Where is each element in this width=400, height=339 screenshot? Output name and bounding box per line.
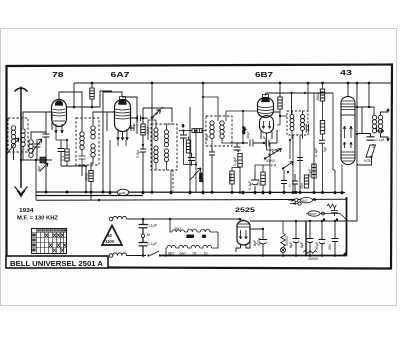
cap C5 <box>130 125 134 131</box>
resistor R1 <box>90 88 94 99</box>
det coil box T5 <box>287 111 308 135</box>
T1 wires down <box>82 112 107 176</box>
mains choke L3 <box>113 216 127 219</box>
coupling cap C12b <box>319 140 325 143</box>
wire node g1 <box>31 132 46 139</box>
box cap C18 <box>307 221 314 256</box>
plate feed wire 43 <box>348 83 357 221</box>
filament humps row2 <box>167 245 215 248</box>
diode load wires <box>267 116 281 150</box>
ballast resistor 30ohm <box>172 230 188 232</box>
lamp wire <box>282 247 284 256</box>
tube V1 pins <box>55 124 64 133</box>
cathode 78 <box>56 133 67 140</box>
AVC resistor R7 <box>230 171 234 184</box>
wire V2 cathode down <box>110 140 126 193</box>
svg-text:0,5: 0,5 <box>371 143 375 148</box>
svg-text:M.F. = 130 KHZ: M.F. = 130 KHZ <box>17 216 58 222</box>
svg-text:0,1µf: 0,1µf <box>376 138 385 142</box>
padder resistor Rb <box>186 140 190 153</box>
svg-text:43: 43 <box>340 68 352 77</box>
svg-text:50µf: 50µf <box>205 133 209 141</box>
valve table <box>32 229 67 254</box>
gang link dashed <box>172 170 174 191</box>
resistor R12 <box>304 175 308 188</box>
filament 2525 hump <box>188 229 201 232</box>
svg-text:3: 3 <box>182 124 184 128</box>
svg-text:6A7: 6A7 <box>111 70 130 79</box>
svg-text:10: 10 <box>204 252 208 256</box>
R7 wires <box>232 168 240 193</box>
capacitor C1 <box>43 112 50 192</box>
ground (antenna return) <box>15 187 28 197</box>
osc coil box T2 <box>151 124 177 170</box>
cap C11b <box>292 174 298 192</box>
R9 top wire <box>279 83 281 97</box>
rectifier top hatch <box>238 224 250 227</box>
field terminal <box>322 212 325 215</box>
filament 43 hump <box>201 229 219 232</box>
svg-text:1934: 1934 <box>19 208 34 214</box>
wire to detector <box>230 142 248 144</box>
R6 wires <box>237 143 240 192</box>
border frame <box>7 65 393 269</box>
tube V3 top cap <box>263 95 269 98</box>
bias resistor R8 <box>261 172 265 185</box>
wire V3 cap <box>266 93 292 114</box>
plate resistor R9 <box>278 97 282 109</box>
svg-text:2525: 2525 <box>235 207 256 214</box>
voltage triangle <box>102 226 122 246</box>
svg-text:2: 2 <box>289 184 291 188</box>
T4 wires <box>203 97 258 152</box>
svg-text:6B7: 6B7 <box>168 252 175 256</box>
B+ bus <box>74 82 391 84</box>
junction dots psu <box>262 220 298 257</box>
T2 wires <box>148 120 172 192</box>
value labels <box>37 93 385 261</box>
RF transformer T1 box <box>76 118 99 165</box>
coil T4b <box>220 121 224 139</box>
svg-text:400v: 400v <box>257 238 261 246</box>
wire mains top <box>127 218 197 220</box>
tube V2 grid hatch <box>115 109 130 119</box>
tube V1 78 envelope <box>52 100 67 127</box>
field coil wires <box>306 214 348 222</box>
title box <box>6 256 108 268</box>
wire V2 plate <box>122 97 137 118</box>
T5 wires <box>280 111 303 139</box>
coupling cap C9 <box>266 130 277 147</box>
IF transformer T4 box <box>206 116 232 146</box>
grid resistor R3 <box>89 171 93 182</box>
coil L1b <box>21 129 25 147</box>
filament wire <box>166 248 167 256</box>
bleeder resistor zigzag <box>281 221 285 247</box>
dial lamp symbol <box>280 247 285 252</box>
svg-text:40: 40 <box>107 233 112 238</box>
cap C12 <box>297 158 303 161</box>
svg-text:0,1: 0,1 <box>61 156 65 161</box>
svg-text:43: 43 <box>202 235 206 239</box>
tube V4 grid hatch <box>342 101 355 110</box>
V4 cathode wires <box>333 165 342 193</box>
tube V3 6B7 envelope upper <box>258 98 274 118</box>
rectifier top wire <box>242 219 244 221</box>
R13 wire top <box>322 83 324 89</box>
box cap C19 <box>319 221 326 256</box>
tube V1 grid hatch <box>53 109 66 116</box>
line filter cap C15 <box>139 238 148 256</box>
wire L1 bottom <box>14 147 37 161</box>
wire bottom rail left <box>21 160 52 200</box>
V4 cathode hatch <box>342 152 355 161</box>
coupling cap C8 <box>250 140 264 147</box>
mains terminal top <box>109 217 113 221</box>
cap C11 <box>281 178 287 193</box>
coil T5b <box>301 115 305 131</box>
tube V3 grid cap blob <box>261 97 269 102</box>
svg-text:25v: 25v <box>257 180 261 186</box>
resistor R13b <box>320 121 324 135</box>
rectifier cathode wire <box>236 221 306 252</box>
tube V1 base <box>53 120 65 122</box>
svg-text:0,1µF: 0,1µF <box>314 147 318 157</box>
svg-text:8µF: 8µF <box>300 241 304 248</box>
wire S3 <box>284 140 290 178</box>
svg-text:F.A: F.A <box>271 164 277 168</box>
coil T1b <box>91 126 95 157</box>
grid feed 43 <box>332 93 334 170</box>
midpoint terminal M <box>141 234 144 237</box>
coil L1a <box>11 126 15 148</box>
output transformer secondary <box>378 115 382 133</box>
tone capacitor C13 <box>357 134 375 141</box>
T4 caps below <box>209 146 215 193</box>
tube V1 grid cap blob <box>55 100 63 105</box>
filter box left edge <box>305 221 307 256</box>
coil T2a lower <box>154 146 158 163</box>
junction dots det <box>239 142 265 195</box>
filament row link <box>215 232 219 248</box>
svg-text:0,5µf: 0,5µf <box>136 149 140 158</box>
ground bus 2 <box>36 195 143 197</box>
6B7 cap bus wire <box>266 92 334 94</box>
svg-text:0,1µF: 0,1µF <box>148 242 158 246</box>
svg-text:2525: 2525 <box>187 235 195 239</box>
wire grid 78 <box>51 112 53 130</box>
svg-text:VOL: VOL <box>364 159 371 163</box>
R8 wires <box>255 165 270 193</box>
filter cap C17 <box>293 221 300 256</box>
osc grid resistor R4 <box>141 124 145 135</box>
bus dots <box>45 191 344 202</box>
R10 wires <box>322 101 324 193</box>
junction T2 <box>170 192 192 195</box>
corner fill <box>342 251 347 256</box>
cathode bypass wire <box>242 111 244 143</box>
wire V2 cap loop <box>103 92 122 192</box>
coil T2b <box>164 130 168 147</box>
wire V1 plate <box>67 106 93 108</box>
tube V4 neck <box>341 114 355 116</box>
wire cathode to rail <box>61 140 86 192</box>
hum trimmer <box>327 204 338 216</box>
svg-text:6B7: 6B7 <box>255 70 273 79</box>
mains choke L4 <box>113 253 127 256</box>
coil T2b lower <box>164 149 168 162</box>
line filter cap C14 <box>139 219 148 234</box>
osc padder network wire top <box>179 131 196 192</box>
junction dots V3 <box>283 139 291 194</box>
svg-text:0,1: 0,1 <box>133 123 138 127</box>
svg-text:GHB: GHB <box>119 191 126 195</box>
field coil oval <box>308 211 320 216</box>
junction dots mains <box>142 218 172 257</box>
ground bus <box>36 191 345 194</box>
wire V1 top cap <box>59 92 82 130</box>
svg-text:8µF: 8µF <box>289 241 293 248</box>
svg-text:0,1µF: 0,1µF <box>248 180 252 190</box>
mains terminal bottom <box>109 254 113 258</box>
svg-text:50M: 50M <box>146 127 150 134</box>
cathode resistor R2 <box>65 149 69 161</box>
antenna <box>15 87 28 189</box>
junction dot <box>279 82 293 118</box>
padder joins <box>184 137 197 167</box>
junction dots 6A7 <box>109 82 154 195</box>
padder resistor horizontal <box>192 129 202 133</box>
switch S1 osc <box>152 110 161 118</box>
padder cap Cb <box>188 153 195 165</box>
PU terminal <box>290 202 301 205</box>
wire padder <box>186 130 206 132</box>
svg-text:20000: 20000 <box>308 257 318 261</box>
T5 trim cap <box>306 124 308 133</box>
junction dots right <box>356 82 371 136</box>
svg-text:1MΩ: 1MΩ <box>85 173 89 181</box>
svg-text:12500: 12500 <box>199 172 203 182</box>
svg-text:2MΩ: 2MΩ <box>316 93 320 101</box>
svg-text:110V: 110V <box>105 239 115 244</box>
svg-text:6A7: 6A7 <box>180 252 187 256</box>
R11 wires <box>313 158 315 192</box>
electrolytic C10 <box>251 172 259 193</box>
V4 internal arrows <box>343 126 352 148</box>
divider zigzag <box>303 251 317 254</box>
antenna coil box L1 <box>8 118 28 152</box>
screen feed vertical <box>202 83 204 193</box>
RF coil L2 <box>29 140 33 158</box>
coil T5a <box>290 115 294 131</box>
osc anode wire <box>136 118 138 134</box>
svg-text:30Ω: 30Ω <box>174 227 181 231</box>
svg-text:25v: 25v <box>300 183 304 189</box>
svg-text:50µF: 50µF <box>308 168 312 177</box>
det output vertical <box>269 143 271 192</box>
svg-text:M: M <box>147 233 150 237</box>
svg-text:10µf: 10µf <box>246 131 250 139</box>
tube V3 envelope lower <box>260 116 274 133</box>
screen tap wire <box>368 83 370 107</box>
T1 trimmer cap <box>79 150 86 165</box>
pilot lamp oval <box>117 189 129 195</box>
filter box right edge <box>346 197 348 256</box>
tuning capacitor CV1 <box>32 139 42 160</box>
junction dot <box>202 82 205 195</box>
V4 plate wire <box>347 83 349 97</box>
wire R4 <box>142 118 144 145</box>
tone control rheostat VOL <box>357 145 376 165</box>
svg-text:50µF: 50µF <box>315 241 319 250</box>
mains switch <box>150 251 159 256</box>
wire switch to bus <box>160 255 347 257</box>
wire mains bottom <box>127 255 147 257</box>
svg-text:78: 78 <box>52 70 64 79</box>
tube V2 6A7 envelope <box>115 100 131 132</box>
dial lamp feed <box>170 219 172 232</box>
osc vertical feed <box>189 107 191 193</box>
wire mains to rectifier <box>196 218 240 220</box>
tube V2 pins <box>117 129 129 140</box>
trimmer arrow <box>190 168 201 180</box>
wire to 6A7 grid <box>106 112 108 131</box>
speaker field resistor oval <box>289 197 313 202</box>
svg-text:0,1µF: 0,1µF <box>148 224 158 228</box>
tube V3 grid hatch <box>258 107 273 114</box>
wire R3 down <box>90 182 92 201</box>
tube V3 diode arrows <box>262 121 270 129</box>
svg-text:0,1µF: 0,1µF <box>233 156 237 166</box>
wave trap arrow <box>40 163 49 172</box>
series resistor <box>36 157 52 163</box>
wire V3 plate <box>274 109 281 116</box>
padder cap C6 <box>140 145 146 193</box>
antenna coupling trimmer arrow <box>6 138 19 155</box>
junction dots det2 <box>254 192 272 195</box>
svg-text:BELL UNIVERSEL 2501 A: BELL UNIVERSEL 2501 A <box>10 259 103 268</box>
coil T4a <box>210 121 214 139</box>
diode load cap <box>234 143 241 152</box>
volume control diagonal <box>265 149 282 159</box>
resistor R11 <box>312 164 316 178</box>
main B+ dropper <box>151 83 153 193</box>
wire R1 <box>92 83 100 107</box>
junction dots AF <box>292 82 324 201</box>
AF coupling network verticals <box>293 83 314 192</box>
box bus wire <box>306 220 347 222</box>
padder cap Ca <box>180 135 187 146</box>
coil T2a upper <box>154 128 158 141</box>
rectifier V5 2525 envelope <box>237 221 250 245</box>
cathode bypass C2 <box>58 140 65 166</box>
svg-text:30000: 30000 <box>266 159 275 163</box>
filter cap C16 <box>259 229 267 256</box>
volume pot R6 <box>238 154 242 168</box>
junction dots left <box>20 82 94 162</box>
osc loop wire <box>143 108 172 122</box>
box junction dots <box>309 218 338 256</box>
wire L1 top to grid line <box>23 112 52 128</box>
tube V3 pins <box>261 132 272 140</box>
resistor R13 <box>320 89 324 101</box>
wire screen 78 <box>100 91 112 107</box>
wire to output transformer <box>357 107 374 134</box>
output transformer primary <box>372 115 376 133</box>
rectifier pins <box>241 245 247 249</box>
box cap C20 <box>332 221 339 256</box>
svg-text:5000: 5000 <box>309 212 316 216</box>
tube V2 top cap <box>120 97 126 100</box>
tube V2 grid cap blob <box>118 99 126 104</box>
voice coil hooks <box>381 109 390 142</box>
wire plate feed <box>73 83 75 107</box>
grid cap inline <box>135 116 148 122</box>
svg-text:1MΩ: 1MΩ <box>229 174 233 182</box>
output arrow <box>377 127 385 132</box>
AVC bus <box>36 199 347 200</box>
tube V4 43 envelope <box>341 97 355 165</box>
rectifier internals <box>239 230 247 239</box>
svg-text:30Ω: 30Ω <box>302 199 308 203</box>
junction dot <box>334 82 350 195</box>
coil T1a <box>80 132 84 150</box>
svg-text:25v: 25v <box>328 244 332 250</box>
switch S3 <box>283 162 294 169</box>
svg-text:78: 78 <box>192 252 196 256</box>
